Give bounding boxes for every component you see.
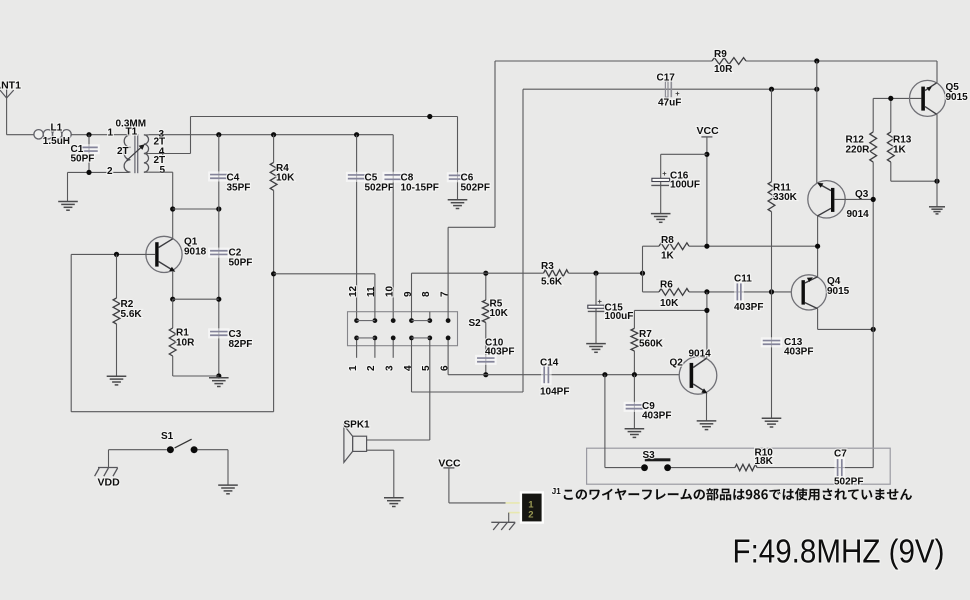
junction R8 VCC <box>704 244 709 249</box>
junction R4 top <box>271 132 276 137</box>
svg-text:S3: S3 <box>643 450 656 461</box>
svg-text:+: + <box>662 169 667 178</box>
wire Q5 base <box>873 97 921 99</box>
wire S2 pin11 <box>374 274 376 312</box>
capacitor C14 <box>541 364 552 385</box>
svg-text:2T: 2T <box>154 137 166 148</box>
wire S2 pin5 to speaker <box>429 346 431 440</box>
capacitor C11 <box>734 281 744 302</box>
wire S2 pin4 route <box>411 346 413 392</box>
svg-text:10K: 10K <box>276 173 295 184</box>
ground at SPK1 <box>384 497 404 499</box>
wire L1 to T1 pin 1 <box>71 134 129 136</box>
svg-text:104PF: 104PF <box>540 387 569 398</box>
svg-text:2: 2 <box>366 365 377 371</box>
svg-text:1K: 1K <box>893 145 907 156</box>
svg-text:C7: C7 <box>834 449 847 460</box>
chassis ground at J1 <box>491 522 515 530</box>
svg-text:4: 4 <box>403 365 414 371</box>
wire C17 line <box>523 88 817 90</box>
wire C16 branch <box>661 153 707 155</box>
svg-text:10K: 10K <box>490 308 509 319</box>
ground at C1 <box>58 201 78 203</box>
resistor R11 <box>768 89 775 339</box>
svg-text:3: 3 <box>385 365 396 371</box>
junction C4 bottom <box>216 206 221 211</box>
wire T1 pin 2 to ground corner <box>68 171 130 173</box>
wireframe box J1 region <box>587 448 891 484</box>
inductor L1 <box>34 130 71 139</box>
wire S2 pin7 route <box>447 227 449 311</box>
wire Q1 base loop <box>70 254 72 411</box>
svg-text:R3: R3 <box>541 261 554 272</box>
svg-text:502PF: 502PF <box>365 182 394 193</box>
svg-text:502PF: 502PF <box>461 182 490 193</box>
wire S2 pin6 <box>447 346 449 375</box>
wire R1 to ground node <box>173 375 219 377</box>
junction emitters node <box>815 244 820 249</box>
svg-text:18K: 18K <box>755 456 774 467</box>
svg-text:82PF: 82PF <box>229 339 253 350</box>
junction S3 feed <box>602 372 607 377</box>
svg-text:5: 5 <box>160 165 166 176</box>
capacitor C2 <box>208 248 230 258</box>
transistor Q3 <box>808 181 845 218</box>
capacitor C17 <box>665 81 671 97</box>
wire C6 drop <box>457 117 459 200</box>
svg-text:ANT1: ANT1 <box>0 80 21 92</box>
junction C16 tee <box>704 152 709 157</box>
wire Q5 collector down <box>936 114 938 207</box>
connector J1 <box>506 491 544 523</box>
ground at C6 <box>448 199 468 201</box>
svg-text:9018: 9018 <box>184 247 207 258</box>
resistor R5 <box>482 273 489 375</box>
svg-text:R9: R9 <box>714 49 727 60</box>
svg-text:220R: 220R <box>846 145 871 156</box>
svg-text:100UF: 100UF <box>670 180 700 191</box>
svg-text:R8: R8 <box>661 235 674 246</box>
capacitor C5 <box>346 135 368 312</box>
svg-text:10R: 10R <box>176 338 195 349</box>
capacitor C16 <box>651 178 669 185</box>
svg-text:330K: 330K <box>773 192 798 203</box>
S2 inner contacts <box>354 312 450 346</box>
resistor R1 <box>169 299 176 376</box>
svg-text:5: 5 <box>421 365 432 371</box>
svg-text:9014: 9014 <box>847 209 870 220</box>
transistor Q2 <box>679 357 717 395</box>
ground at C3 <box>209 377 229 379</box>
transistor Q4 <box>791 275 826 310</box>
wire Q2 collector node <box>634 309 707 311</box>
svg-text:5.6K: 5.6K <box>541 277 563 288</box>
wire S2 pins 1-3 stubs <box>356 346 358 358</box>
switch S1 <box>167 439 198 453</box>
wire bias line / resistor R3 <box>412 270 643 277</box>
svg-text:403PF: 403PF <box>734 302 763 313</box>
svg-text:+: + <box>675 89 680 98</box>
ground at C13 <box>762 417 782 419</box>
capacitor C9 <box>624 375 646 429</box>
svg-text:35PF: 35PF <box>227 182 251 193</box>
resistor R12 <box>870 98 877 467</box>
svg-text:Q2: Q2 <box>670 358 684 369</box>
wire Q3 emitter line <box>816 61 818 183</box>
wire Q1 base <box>71 253 155 255</box>
wire Q2 collector to node <box>706 357 708 358</box>
svg-text:C17: C17 <box>657 72 676 83</box>
ground at Q5 <box>929 206 945 208</box>
svg-text:9: 9 <box>403 291 414 297</box>
wire S1 right to ground <box>198 449 228 451</box>
svg-text:Q3: Q3 <box>855 189 869 200</box>
svg-text:2: 2 <box>107 166 113 177</box>
svg-text:R6: R6 <box>660 280 673 291</box>
svg-text:10R: 10R <box>714 64 733 75</box>
wire node A vertical <box>642 246 644 292</box>
ground at C15 <box>586 343 606 345</box>
wire J1 pin2 to chassis ground <box>508 513 510 523</box>
wire S3 feed <box>604 375 606 468</box>
junction R5 top <box>483 271 488 276</box>
junction C17 line end <box>814 87 819 92</box>
wire S3 to R10 / resistor R10 <box>671 464 873 470</box>
junction Q1 emitter <box>170 297 175 302</box>
junction R13/Q5 collector <box>934 179 939 184</box>
svg-text:403PF: 403PF <box>485 347 514 358</box>
wire Q2 emitter to ground <box>706 393 708 421</box>
junction Q4 collector to R12 line <box>871 327 876 332</box>
junction C17 line R11 <box>769 87 774 92</box>
junction C1 top <box>86 132 91 137</box>
svg-text:S2: S2 <box>469 318 482 329</box>
junction C3 bottom <box>216 373 221 378</box>
svg-text:403PF: 403PF <box>642 411 671 422</box>
capacitor C10 <box>475 355 497 365</box>
wire Q5 emitter to rail <box>936 61 938 83</box>
svg-text:SPK1: SPK1 <box>344 420 371 431</box>
transistor Q5 <box>910 80 946 116</box>
switch S2 box <box>348 312 458 346</box>
wire T1 pin5 down <box>149 171 173 173</box>
svg-text:47uF: 47uF <box>658 98 681 109</box>
junction C10 bottom <box>483 372 488 377</box>
svg-text:6: 6 <box>439 365 450 371</box>
junction Q4 base node <box>769 289 774 294</box>
svg-text:9015: 9015 <box>946 92 969 103</box>
svg-text:VDD: VDD <box>98 477 121 489</box>
antenna ANT1 <box>0 89 14 135</box>
wire Q1 emitter down <box>172 271 174 299</box>
svg-text:9014: 9014 <box>689 349 712 360</box>
svg-text:1: 1 <box>108 128 114 139</box>
svg-text:560K: 560K <box>639 339 664 350</box>
svg-text:403PF: 403PF <box>784 347 813 358</box>
svg-text:S1: S1 <box>161 431 174 442</box>
ground at R2 <box>107 375 127 377</box>
svg-text:F:49.8MHZ (9V): F:49.8MHZ (9V) <box>733 534 945 571</box>
ground at C9 <box>625 428 645 430</box>
power VDD <box>95 468 118 477</box>
capacitor C15 <box>588 273 605 343</box>
wire R13 bottom <box>891 180 937 182</box>
wire S1 left <box>109 449 167 451</box>
svg-text:T1: T1 <box>126 126 138 137</box>
junction C1 bottom <box>86 170 91 175</box>
svg-text:100uF: 100uF <box>605 311 634 322</box>
svg-text:+: + <box>598 297 603 306</box>
junction R13 top <box>888 96 893 101</box>
resistor R6 <box>643 289 792 296</box>
capacitor C13 <box>761 337 783 418</box>
svg-text:2: 2 <box>528 509 533 520</box>
junction S2 pin8 top <box>427 114 432 119</box>
capacitor C6 <box>447 172 469 182</box>
capacitor C8 <box>382 135 404 312</box>
svg-text:50PF: 50PF <box>71 154 95 165</box>
capacitor C3 <box>208 328 230 338</box>
svg-text:1: 1 <box>348 365 359 371</box>
transistor Q1 <box>146 236 182 272</box>
capacitor C7 <box>834 457 845 478</box>
svg-text:9015: 9015 <box>827 286 850 297</box>
wire antenna to L1 <box>7 134 34 136</box>
junction R2 top <box>114 252 119 257</box>
svg-text:11: 11 <box>366 286 377 297</box>
speaker SPK1 <box>344 425 367 462</box>
junction collector line <box>170 206 175 211</box>
wire Q3 base <box>834 198 873 200</box>
junction C2 bottom <box>216 297 221 302</box>
svg-text:7: 7 <box>439 291 450 297</box>
wire Q2 base line <box>448 374 679 376</box>
switch S3 <box>641 458 671 471</box>
capacitor C1 <box>78 135 100 173</box>
junction R9 rail to Q3 emitter line <box>814 58 819 63</box>
svg-text:1.5uH: 1.5uH <box>43 136 70 147</box>
junction C5 top <box>354 132 359 137</box>
wire SPK1 bottom to ground <box>367 449 394 451</box>
wire S2 pin9 <box>411 273 413 312</box>
svg-text:10-15PF: 10-15PF <box>401 182 439 193</box>
junction Q3 base <box>871 197 876 202</box>
wire Q3 collector to Q4 emitter <box>817 216 819 277</box>
junction node A <box>640 271 645 276</box>
svg-text:10K: 10K <box>660 298 679 309</box>
svg-text:C14: C14 <box>540 358 559 369</box>
wire T1 pin3 rail <box>149 134 394 136</box>
wire Q4 collector <box>817 309 819 330</box>
svg-text:VCC: VCC <box>697 125 720 137</box>
svg-text:J1: J1 <box>552 487 561 496</box>
svg-text:5.6K: 5.6K <box>121 309 143 320</box>
svg-text:12: 12 <box>348 285 359 297</box>
svg-text:L1: L1 <box>51 122 63 133</box>
svg-text:10: 10 <box>385 285 396 297</box>
junction R7/C9 <box>632 372 637 377</box>
ground at C16 <box>651 213 671 215</box>
junction C4 top <box>216 132 221 137</box>
svg-text:502PF: 502PF <box>834 477 863 488</box>
svg-text:2T: 2T <box>117 146 129 157</box>
wire emitter to C2 node <box>173 298 219 300</box>
junction C15 top <box>593 271 598 276</box>
svg-text:C11: C11 <box>734 274 752 285</box>
resistor R2 <box>113 254 120 376</box>
ground at Q2 <box>697 420 717 422</box>
junction R6 right <box>704 289 709 294</box>
svg-text:1K: 1K <box>661 251 675 262</box>
resistor R4 <box>270 135 277 412</box>
svg-text:50PF: 50PF <box>229 258 253 269</box>
wire top rail / resistor R9 <box>495 58 937 65</box>
resistor R8 <box>643 243 818 250</box>
svg-text:8: 8 <box>421 291 432 297</box>
resistor R13 <box>887 98 894 181</box>
transformer T1 <box>124 134 148 173</box>
junction Q2 collector <box>704 308 709 313</box>
capacitor C4 <box>208 171 230 181</box>
ground at S1 <box>218 484 238 486</box>
wire collector to C4 column <box>173 208 219 210</box>
junction R4/S2 pin11 <box>271 271 276 276</box>
wire C4/C2/C3 column <box>218 135 220 378</box>
wire pin4 line up <box>149 153 191 155</box>
svg-text:2T: 2T <box>154 155 166 166</box>
resistor R7 <box>631 310 638 374</box>
